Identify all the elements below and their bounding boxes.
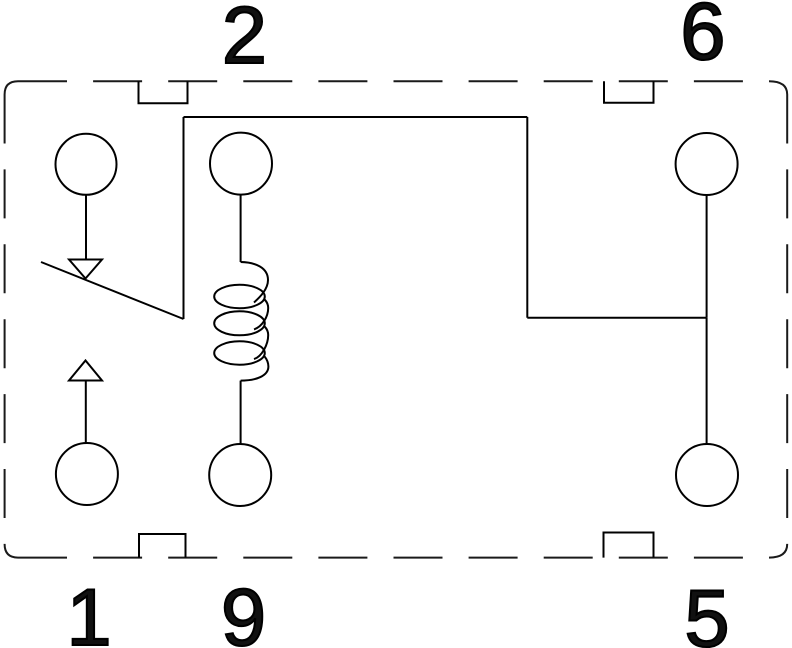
svg-text:5: 5	[684, 574, 729, 648]
terminal circle top-left	[56, 134, 117, 195]
wire bottom edge dashed	[18, 557, 769, 559]
notch top-left (pin 2 index)	[139, 81, 188, 103]
svg-text:6: 6	[680, 0, 725, 77]
terminal circle top-right (pin 6)	[676, 133, 738, 195]
wire: top horizontal run	[184, 116, 528, 118]
terminal circle bottom-left (pin 1)	[56, 443, 118, 505]
wire: pin 1 circle stem	[85, 381, 87, 444]
wire: top-left circle stem	[85, 195, 87, 259]
terminal circle bottom-right (pin 5)	[676, 444, 738, 506]
terminal circle top-middle (coil pin 2 side)	[210, 133, 272, 195]
corner arc top-left	[5, 81, 18, 94]
wire: common vertical from top border to lever pivot	[183, 117, 185, 319]
wire: right vertical drop	[526, 117, 528, 318]
contact arrow up (NO contact, pin 1)	[69, 361, 102, 381]
svg-text:1: 1	[66, 573, 111, 648]
corner arc bottom-left	[5, 544, 18, 558]
contact arrow down (NC contact)	[69, 260, 102, 279]
wire: lower horizontal run to pin column	[527, 317, 706, 319]
terminal circle bottom-middle (pin 9)	[209, 444, 271, 506]
wire left edge dashed	[4, 95, 6, 545]
corner arc bottom-right	[769, 544, 787, 558]
svg-text:2: 2	[222, 0, 267, 81]
wire right edge dashed	[786, 95, 788, 545]
wire: coil top stem	[240, 195, 242, 262]
wire: pin 6 circle down to junction	[706, 195, 708, 318]
wire top edge dashed	[18, 80, 769, 82]
switch lever (movable contact)	[41, 262, 184, 319]
inductor coil (relay coil)	[214, 262, 268, 381]
wire: coil bottom stem	[240, 381, 242, 444]
notch bottom-left (pin 9 index)	[139, 534, 186, 558]
svg-text:9: 9	[221, 573, 266, 648]
corner arc top-right	[769, 81, 787, 94]
notch bottom-right (pin 5 index)	[604, 533, 654, 558]
relay body outline (dashed rounded rectangle)	[5, 81, 788, 557]
notch top-right (pin 6 index)	[604, 81, 654, 103]
wire: junction down to pin 5 circle	[706, 318, 708, 444]
